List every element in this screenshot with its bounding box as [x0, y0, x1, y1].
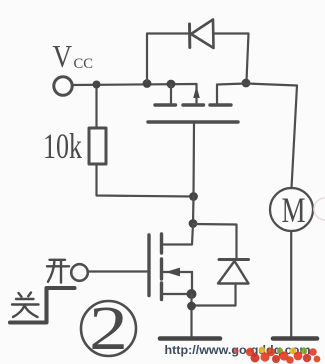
diode D1 cathode bar — [188, 24, 191, 48]
wire M2 gate lead — [89, 270, 149, 272]
wire M2 source to bottom — [190, 294, 192, 336]
motor M1 circle — [270, 188, 313, 231]
MOSFET M2 gate bar — [147, 235, 150, 296]
MOSFET M1 gate lead — [192, 124, 195, 197]
node resistor tap — [93, 81, 101, 89]
node zener tap — [189, 219, 198, 228]
terminal circle input — [71, 264, 88, 281]
node M1 source — [167, 80, 176, 89]
MOSFET M1 drain stub — [217, 84, 246, 104]
zener D2 cathode bar — [219, 258, 249, 261]
MOSFET M1 gate bar — [148, 120, 238, 123]
svg-text:10k: 10k — [43, 126, 82, 166]
terminal bar motor bottom — [273, 336, 317, 341]
MOSFET M2 body-source link — [191, 272, 193, 294]
node M2 source — [187, 289, 197, 299]
node diode left branch — [143, 79, 152, 88]
MOSFET M1 body stub — [195, 84, 197, 103]
resistor R1 bottom wire — [97, 164, 194, 197]
svg-text:CC: CC — [74, 56, 94, 72]
diode D1 — [191, 20, 214, 49]
label 关 (off) — [12, 293, 39, 318]
MOSFET M2 channel bars — [160, 234, 163, 253]
wire M2 drain hook — [164, 224, 194, 245]
label 开 (on) — [47, 260, 69, 283]
MOSFET M2 body arrow (left) — [166, 268, 181, 277]
wire Vcc rail — [72, 84, 197, 85]
wire to motor — [246, 84, 297, 189]
wire motor to bottom — [290, 231, 292, 336]
resistor R1 top wire — [95, 89, 97, 129]
resistor R1 — [89, 128, 106, 164]
MOSFET M1 source stub — [170, 84, 172, 103]
watermark flowers — [233, 347, 320, 364]
Vcc terminal — [54, 77, 72, 95]
svg-text:V: V — [53, 38, 73, 74]
wire gate node down — [192, 197, 195, 224]
wire zener bottom — [192, 284, 236, 306]
wire zener top — [193, 224, 237, 258]
zener D2 — [218, 261, 249, 284]
MOSFET M1 body arrow (up) — [193, 86, 200, 98]
MOSFET M2 body stub — [164, 271, 193, 273]
wire diode right branch — [214, 34, 249, 82]
node M1 drain / motor branch — [242, 79, 251, 88]
Vcc label — [53, 38, 94, 74]
svg-text:M: M — [282, 190, 306, 230]
node zener return — [187, 302, 196, 311]
faint stamp arc right edge — [314, 198, 325, 220]
figure number 2 circle — [81, 301, 136, 356]
svg-text:2: 2 — [89, 295, 128, 363]
MOSFET M1 channel bars — [155, 103, 176, 106]
step waveform — [10, 288, 75, 323]
node gate — [189, 192, 198, 201]
terminal bar source bottom — [160, 336, 220, 341]
MOSFET M2 source stub — [164, 293, 193, 295]
wire diode left branch — [147, 34, 189, 82]
